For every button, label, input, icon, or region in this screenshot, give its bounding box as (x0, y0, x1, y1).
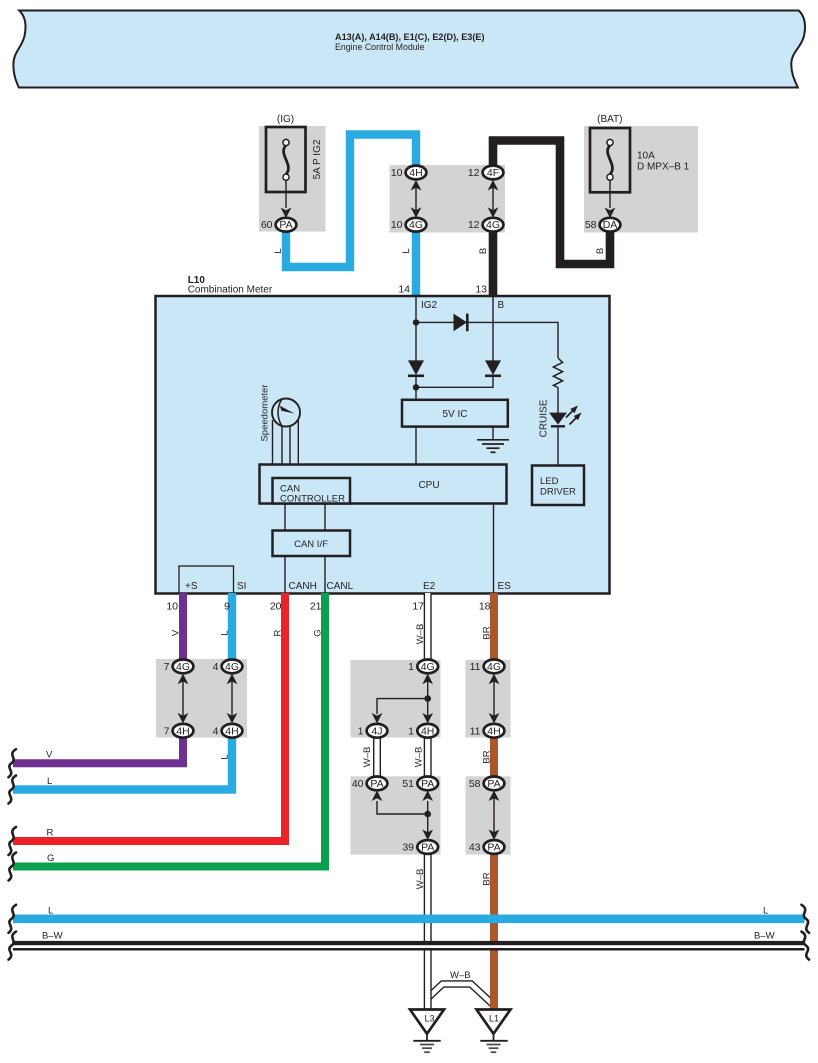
wire L blue : 4G to meter pin 14 (412, 231, 420, 297)
ground L1 (477, 1010, 511, 1053)
svg-text:7: 7 (164, 725, 170, 737)
wire CPU to ES pin (493, 504, 495, 594)
svg-text:4H: 4H (487, 725, 500, 737)
LED cruise (549, 403, 584, 426)
svg-text:4H: 4H (176, 725, 189, 737)
svg-text:BR: BR (482, 872, 493, 885)
svg-text:B–W: B–W (754, 931, 775, 942)
svg-text:L: L (48, 906, 53, 917)
svg-text:1: 1 (408, 725, 414, 737)
svg-text:L: L (401, 248, 412, 253)
wire L blue : pin9 to 4G (228, 593, 236, 661)
connector PA 40 (352, 777, 388, 791)
diode D2 (IG2 down) (408, 360, 424, 375)
svg-text:60: 60 (261, 219, 273, 231)
svg-text:BR: BR (482, 626, 493, 639)
svg-text:PA: PA (370, 778, 383, 790)
connector pass-through arrows (BAT block 4F-4G) (488, 180, 499, 218)
connector 4G 7 (164, 660, 194, 674)
svg-text:11: 11 (470, 725, 481, 737)
svg-text:Combination Meter: Combination Meter (188, 285, 273, 296)
wire R red : pin20 to left edge (13, 593, 285, 841)
svg-text:4J: 4J (371, 725, 382, 737)
connector DA 58 (585, 218, 621, 232)
svg-text:13: 13 (475, 284, 487, 296)
ground inside meter (5V IC) (477, 440, 509, 453)
svg-text:E2: E2 (423, 581, 436, 592)
connector 4H 10 (391, 166, 427, 180)
svg-text:V: V (46, 750, 53, 761)
svg-text:1: 1 (408, 661, 414, 673)
svg-text:DA: DA (603, 219, 618, 231)
svg-text:Engine Control Module: Engine Control Module (335, 42, 425, 53)
connector arrows V column (178, 674, 189, 724)
speedometer (260, 384, 301, 441)
wire W-B branch to ground L1 (428, 984, 493, 1004)
connector 4J 1 (358, 724, 388, 738)
svg-text:W–B: W–B (362, 747, 373, 768)
wire W-B : pin17 to 4G (424, 593, 432, 661)
svg-text:B: B (478, 248, 489, 254)
meter internals (273, 297, 559, 593)
bus wire B-W horizontal (13, 941, 805, 951)
pin numbers (166, 284, 490, 613)
svg-text:W–B: W–B (414, 747, 425, 768)
svg-text:LED: LED (540, 476, 559, 487)
svg-text:4G: 4G (409, 219, 423, 231)
svg-text:43: 43 (469, 842, 481, 854)
connector ovals (164, 166, 621, 854)
svg-text:L: L (220, 630, 231, 635)
wire BR brown : PA43 to ground L1 (490, 852, 498, 1010)
resistor (cruise LED series) (553, 358, 562, 388)
svg-text:G: G (313, 629, 324, 636)
ground L3 (410, 1010, 444, 1053)
svg-text:4G: 4G (225, 661, 239, 673)
svg-text:5A P IG2: 5A P IG2 (312, 139, 323, 179)
junction arrows PA40/PA51 to PA39 (372, 791, 434, 841)
svg-text:10: 10 (391, 167, 403, 179)
left edge wire name labels (46, 750, 54, 865)
svg-text:5V IC: 5V IC (442, 409, 467, 420)
svg-text:(IG): (IG) (277, 114, 294, 125)
svg-text:Speedometer: Speedometer (260, 384, 271, 441)
wire resistor to LED to LED driver (557, 388, 559, 466)
svg-text:W–B: W–B (415, 869, 426, 890)
wire V violet : 4H to left edge (13, 736, 183, 763)
svg-text:17: 17 (412, 601, 424, 613)
svg-text:11: 11 (470, 661, 481, 673)
svg-text:20: 20 (270, 601, 282, 613)
svg-text:G: G (47, 853, 54, 864)
wire diode outputs join (416, 376, 493, 400)
svg-text:4: 4 (213, 661, 219, 673)
grey connector shade boxes (156, 126, 698, 855)
svg-text:B: B (498, 300, 505, 311)
connector PA 60 (261, 218, 297, 232)
svg-text:PA: PA (487, 778, 500, 790)
svg-text:58: 58 (469, 778, 481, 790)
CPU box (260, 465, 507, 504)
CAN I/F box (273, 531, 351, 557)
svg-text:12: 12 (468, 167, 480, 179)
connector PA 58 (469, 777, 505, 791)
LED driver box (532, 466, 584, 506)
CAN controller box (273, 478, 351, 505)
bus labels (42, 906, 775, 982)
wire G green : pin21 to left edge (13, 593, 325, 867)
svg-text:18: 18 (479, 601, 491, 613)
svg-text:L1: L1 (489, 1014, 499, 1024)
svg-text:D MPX–B 1: D MPX–B 1 (637, 162, 690, 173)
svg-text:V: V (171, 629, 182, 636)
svg-text:SI: SI (237, 581, 246, 592)
connector 4G 1 (408, 660, 438, 674)
wire 5V IC to ground (492, 427, 494, 440)
wire BR brown : pin18 to 4G (490, 593, 498, 661)
fuse (BAT) 10A D MPX-B 1 (590, 114, 690, 218)
connector 4H 4 (213, 724, 243, 738)
svg-text:CPU: CPU (418, 480, 439, 491)
combination meter box L10 (156, 275, 610, 594)
svg-text:L3: L3 (424, 1014, 434, 1024)
svg-text:7: 7 (164, 661, 170, 673)
connector pass-through arrows (IG block 4H-4G) (411, 180, 422, 218)
svg-text:4H: 4H (225, 725, 238, 737)
svg-text:W–B: W–B (415, 624, 426, 645)
connector arrows W-B column with 4J branch (372, 674, 434, 724)
svg-text:1: 1 (358, 725, 364, 737)
wire CANH CANL to pins (285, 556, 325, 593)
connector arrows PA58-PA43 (489, 791, 500, 841)
svg-text:(BAT): (BAT) (597, 114, 622, 125)
svg-text:PA: PA (279, 219, 292, 231)
svg-text:PA: PA (421, 842, 434, 854)
svg-text:40: 40 (352, 778, 364, 790)
fuse (IG) 5A P IG2 (266, 114, 323, 218)
connector 4H 1 (408, 724, 438, 738)
svg-text:CONTROLLER: CONTROLLER (280, 494, 345, 505)
+S box (179, 566, 234, 594)
connector 4H 7 (164, 724, 194, 738)
rotated wire colour labels (171, 248, 607, 889)
connector PA 39 (402, 840, 438, 854)
wire B black : 4G to meter pin 13 (489, 231, 498, 297)
svg-text:R: R (273, 629, 284, 636)
svg-text:4G: 4G (421, 661, 435, 673)
connector 4G 10 (391, 218, 427, 232)
wire B black : DA to 4F (493, 141, 610, 265)
svg-text:PA: PA (487, 842, 500, 854)
wire 5V IC to CPU (415, 427, 417, 465)
svg-text:4G: 4G (486, 219, 500, 231)
wire IG2 node to resistor top (416, 322, 558, 358)
svg-text:21: 21 (310, 601, 322, 613)
ECM banner (13, 11, 805, 88)
svg-text:4G: 4G (176, 661, 190, 673)
diode D3 (B down) (485, 360, 501, 375)
wire L blue : 4H to left edge (13, 736, 232, 790)
connector 4F 12 (468, 166, 504, 180)
connector arrows L column (227, 674, 238, 724)
svg-text:4F: 4F (487, 167, 499, 179)
svg-text:IG2: IG2 (421, 300, 438, 311)
svg-text:51: 51 (402, 778, 414, 790)
svg-text:BR: BR (482, 750, 493, 763)
junction dots (413, 319, 419, 325)
svg-text:W–B: W–B (450, 970, 471, 981)
svg-text:L: L (273, 248, 284, 253)
wire CAN controller to CAN I/F (285, 504, 325, 531)
connector PA 51 (402, 777, 438, 791)
svg-text:PA: PA (421, 778, 434, 790)
svg-text:ES: ES (498, 581, 512, 592)
svg-text:B–W: B–W (42, 931, 63, 942)
svg-text:9: 9 (224, 601, 230, 613)
wire W-B : 4H to PA51 (424, 736, 432, 778)
svg-text:12: 12 (468, 219, 480, 231)
connector PA 43 (469, 840, 505, 854)
svg-text:4: 4 (213, 725, 219, 737)
svg-text:58: 58 (585, 219, 597, 231)
svg-text:+S: +S (185, 581, 198, 592)
svg-text:DRIVER: DRIVER (540, 487, 576, 498)
diode D1 (IG2 to B, right) (454, 314, 468, 332)
svg-text:CAN I/F: CAN I/F (294, 539, 328, 550)
bus wire L blue horizontal (13, 914, 805, 923)
svg-text:CANH: CANH (289, 581, 317, 592)
edge cut braces (9, 749, 17, 777)
svg-text:L: L (763, 906, 768, 917)
svg-text:4H: 4H (409, 167, 422, 179)
svg-text:L: L (47, 776, 52, 787)
wire speedometer to CPU (273, 420, 299, 465)
wire W-B : 4J to PA40 (373, 736, 381, 778)
wire W-B : PA39 to ground L3 (424, 852, 432, 1010)
svg-text:CANL: CANL (327, 581, 354, 592)
wire V violet : pin10 to 4G (179, 593, 187, 661)
svg-text:R: R (47, 828, 54, 839)
svg-text:10: 10 (391, 219, 403, 231)
connector 4G 11 (470, 660, 505, 674)
svg-text:B: B (595, 248, 606, 254)
wire BR brown : 4H to PA58 (490, 736, 498, 778)
svg-text:14: 14 (398, 284, 410, 296)
svg-text:L: L (220, 754, 231, 759)
node IG2 vertical (415, 297, 417, 361)
connector 4H 11 (470, 724, 505, 738)
connector 4G 12 (468, 218, 504, 232)
svg-text:4H: 4H (421, 725, 434, 737)
5V IC box (402, 400, 508, 427)
connector 4G 4 (213, 660, 243, 674)
svg-text:10: 10 (166, 601, 178, 613)
svg-text:39: 39 (402, 842, 414, 854)
node B vertical (492, 297, 494, 361)
connector arrows BR column upper (489, 674, 500, 724)
svg-text:CRUISE: CRUISE (539, 399, 550, 437)
svg-text:10A: 10A (637, 151, 655, 162)
svg-text:4G: 4G (487, 661, 501, 673)
wire L blue : PA60 to 4H (286, 135, 416, 268)
